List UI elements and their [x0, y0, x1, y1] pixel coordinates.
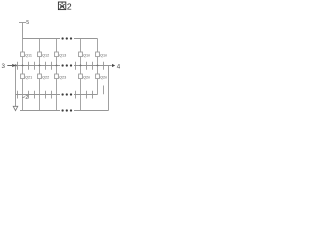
title figure label 図2: [58, 2, 65, 10]
svg-text:Q13: Q13: [59, 54, 66, 58]
main signal line: [16, 65, 112, 67]
top gate column with resistor, transistor Q1n: [79, 39, 83, 66]
stray electrode bar right end: [103, 86, 105, 95]
bottom gate column with resistor, transistor Q21: [21, 66, 25, 111]
ellipsis dots main line: [61, 64, 72, 66]
electrode bars crossing shunt rail: [18, 91, 93, 99]
ellipsis dots top rail: [61, 37, 72, 39]
junction node to terminal 2 branch: [14, 64, 16, 66]
top gate column with resistor, transistor Q11: [21, 39, 25, 66]
gate junction dots on main line: [22, 65, 99, 67]
top gate column with resistor, transistor Q13: [55, 39, 59, 66]
svg-text:Q2n: Q2n: [100, 76, 107, 80]
output arrow and terminal 4 label: [112, 64, 115, 67]
branch to terminal 2 with hollow down arrow: [15, 66, 17, 107]
svg-text:Q11: Q11: [25, 54, 32, 58]
svg-text:Q2n: Q2n: [83, 76, 90, 80]
svg-text:Q1n: Q1n: [100, 54, 107, 58]
control terminal T top-left: [19, 23, 26, 39]
svg-text:Q21: Q21: [25, 76, 32, 80]
bottom gate column with resistor, transistor Q2n: [79, 66, 83, 111]
bottom gate column with resistor, transistor Q23: [55, 66, 59, 111]
svg-text:Q22: Q22: [42, 76, 49, 80]
bottom gate column with resistor, transistor Q22: [38, 66, 42, 111]
shunt channel rail lower: [16, 94, 98, 96]
svg-text:Q12: Q12: [42, 54, 49, 58]
label 2 with leader: [23, 96, 26, 99]
gate bias rail bottom: [20, 110, 109, 112]
gate bias rail top: [23, 38, 98, 40]
ellipsis dots shunt rail: [61, 93, 72, 95]
top gate column with resistor, transistor Q12: [38, 39, 42, 66]
svg-text:5: 5: [26, 20, 29, 26]
svg-text:2: 2: [25, 95, 28, 101]
svg-text:2: 2: [67, 2, 72, 12]
source/drain electrode bars crossing main line: [18, 62, 104, 70]
svg-text:3: 3: [2, 63, 6, 70]
svg-text:Q1n: Q1n: [83, 54, 90, 58]
svg-text:Q23: Q23: [59, 76, 66, 80]
top gate column with resistor, transistor Q1n: [96, 39, 100, 66]
riser from bottom rail to output node: [108, 66, 110, 111]
svg-text:4: 4: [117, 63, 121, 70]
ellipsis dots bottom rail: [61, 109, 72, 111]
bottom gate column with resistor, transistor Q2n: [96, 66, 100, 95]
